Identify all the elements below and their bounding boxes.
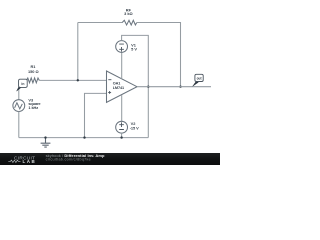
logo resistor glyph (8, 160, 20, 162)
junction dot inverting node (77, 79, 79, 81)
wire ground rail (19, 137, 149, 139)
wire non-inverting input to ground rail (85, 93, 107, 137)
resistor R1 (27, 78, 40, 83)
svg-text:LM741: LM741 (113, 86, 124, 90)
wire RF left lead (78, 22, 122, 24)
svg-text:5 V: 5 V (131, 47, 137, 52)
junction dot ground-rail / ground (44, 136, 46, 138)
op-amp minus sign (108, 79, 111, 81)
wire feedback branch vertical at inverting node (77, 23, 79, 81)
op-amp plus sign (108, 91, 111, 94)
junction dot V2 / ground rail (120, 136, 122, 138)
svg-text:1 kHz: 1 kHz (28, 105, 38, 110)
node in flag (17, 79, 28, 91)
op-amp OA1 (107, 71, 138, 102)
wire V3 top to in node corner (18, 80, 20, 99)
wire inverting input net: in node to op-amp minus input (19, 79, 107, 81)
svg-text:circuitlab.com/c/8bq7ke: circuitlab.com/c/8bq7ke (46, 158, 91, 162)
wire V3 bottom to ground rail (18, 112, 20, 138)
voltage source V3 (square) (13, 100, 25, 112)
svg-text:OA1: OA1 (113, 81, 121, 85)
svg-text:LAB: LAB (23, 159, 37, 164)
wire output node down leg to ground-rail corner (147, 87, 149, 138)
wire op-amp V- pin to V2 (121, 95, 123, 121)
voltage source V1 (116, 41, 128, 53)
wire RF right lead down to output (137, 23, 181, 87)
voltage source V2 (116, 121, 128, 133)
resistor RF (122, 20, 137, 25)
ground (41, 138, 51, 148)
svg-text:150 Ω: 150 Ω (28, 69, 39, 74)
junction dot RF / output (179, 86, 181, 88)
node out flag (193, 74, 204, 86)
wire op-amp output (137, 86, 211, 88)
svg-text:-15 V: -15 V (130, 125, 139, 130)
wire V2 bottom stub to ground rail (121, 133, 123, 138)
junction dot V1-loop / output (147, 86, 149, 88)
wire V1 top loop to output node (122, 35, 149, 86)
junction dot ground-rail / plus-input (83, 136, 85, 138)
svg-text:3 kΩ: 3 kΩ (124, 11, 133, 16)
svg-text:in: in (21, 82, 24, 86)
wire op-amp V+ pin to V1 (121, 52, 123, 79)
